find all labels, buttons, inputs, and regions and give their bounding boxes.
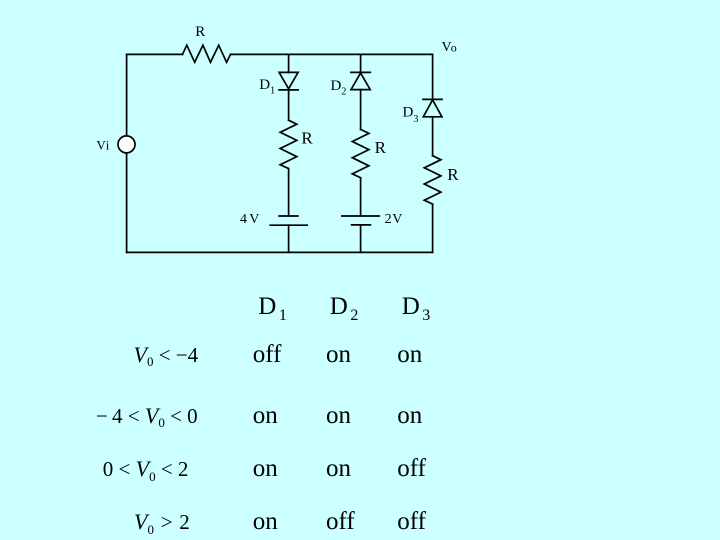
row 2 D2 state bbox=[326, 403, 351, 428]
diode D1 triangle bbox=[279, 72, 298, 88]
svg-text:R: R bbox=[447, 165, 459, 184]
row 3 D1 state bbox=[253, 456, 278, 481]
resistor R3 (D2 branch) bbox=[352, 129, 369, 177]
wire: bottom rail bbox=[127, 251, 433, 253]
row 4 condition: V0 > 2 bbox=[134, 511, 190, 533]
wire: D3 to R4 bbox=[432, 117, 434, 156]
svg-text:D1: D1 bbox=[259, 77, 275, 97]
table header D2 bbox=[330, 294, 359, 319]
wire: D2 branch top lead bbox=[360, 54, 362, 72]
wire: left vertical above Vi bbox=[126, 54, 128, 135]
wire: R4 to bottom rail bbox=[432, 204, 434, 252]
svg-text:R: R bbox=[375, 138, 387, 157]
row 2 D1 state bbox=[253, 403, 278, 428]
svg-text:Vo: Vo bbox=[442, 40, 457, 55]
row 2 condition: -4 < V0 < 0 bbox=[96, 405, 198, 427]
row 3 condition: 0 < V0 < 2 bbox=[103, 458, 189, 480]
diode D3 triangle bbox=[423, 100, 442, 117]
svg-text:2V: 2V bbox=[385, 212, 403, 227]
battery B2 2V short plate bbox=[352, 224, 371, 226]
diode D3 cathode bar bbox=[423, 98, 442, 100]
wire: D1 to R2 bbox=[288, 90, 290, 120]
battery B1 4V long plate bbox=[270, 224, 307, 226]
wire: D2 to R3 bbox=[360, 90, 362, 130]
wire: D1 branch top lead bbox=[288, 54, 290, 72]
svg-text:4V: 4V bbox=[240, 212, 259, 227]
table header D1 bbox=[258, 294, 287, 319]
row 1 D2 state bbox=[326, 342, 351, 367]
wire: battery 4V to bottom rail bbox=[288, 225, 290, 252]
wire: R3 to battery 2V bbox=[360, 178, 362, 216]
svg-text:D3: D3 bbox=[403, 105, 419, 126]
row 1 D1 state bbox=[253, 342, 282, 367]
wire: R2 to battery 4V bbox=[288, 169, 290, 216]
wire: left vertical below Vi bbox=[126, 154, 128, 253]
battery B1 4V short plate bbox=[279, 215, 298, 217]
wire: battery 2V to bottom rail bbox=[360, 225, 362, 253]
wire: top rail right of R bbox=[231, 53, 433, 55]
svg-text:R: R bbox=[195, 24, 205, 40]
svg-text:Vi: Vi bbox=[96, 138, 109, 153]
row 4 D3 state bbox=[397, 509, 426, 534]
row 4 D1 state bbox=[253, 509, 278, 534]
diode D2 triangle bbox=[351, 73, 370, 90]
resistor R4 (right branch) bbox=[424, 156, 441, 204]
wire: top rail left of R bbox=[127, 53, 183, 55]
wire: right vertical to D3 bbox=[432, 54, 434, 99]
row 1 condition: V0 < -4 bbox=[134, 344, 199, 366]
resistor R (top, horizontal) bbox=[183, 45, 231, 62]
battery B2 2V long plate bbox=[342, 215, 379, 217]
resistor R2 (D1 branch) bbox=[280, 120, 297, 168]
diode D2 cathode bar bbox=[351, 71, 370, 73]
row 3 D2 state bbox=[326, 456, 351, 481]
diode D1 cathode bar bbox=[279, 89, 298, 91]
row 2 D3 state bbox=[397, 403, 422, 428]
row 3 D3 state bbox=[397, 456, 426, 481]
svg-text:R: R bbox=[301, 129, 313, 148]
source Vi circle bbox=[118, 136, 135, 153]
table header D3 bbox=[402, 294, 431, 319]
svg-text:D2: D2 bbox=[331, 78, 347, 98]
row 1 D3 state bbox=[397, 342, 422, 367]
row 4 D2 state bbox=[326, 509, 355, 534]
